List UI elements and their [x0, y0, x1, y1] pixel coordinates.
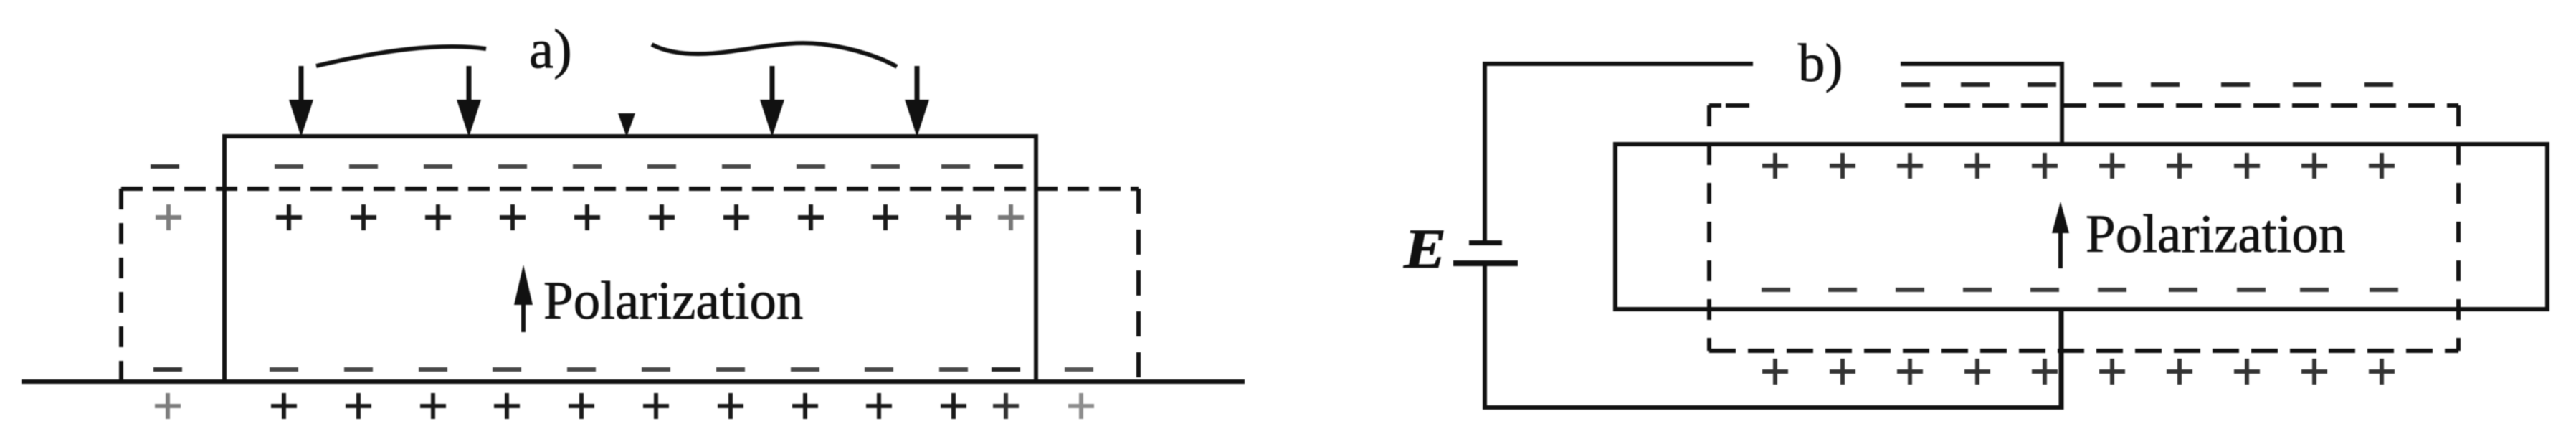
svg-text:b): b)	[1798, 34, 1843, 93]
force arrow F3	[760, 66, 784, 137]
charge row: free plus charges on bottom electrode b)	[1762, 359, 2395, 385]
crystal body b) solid rectangle	[1615, 144, 2547, 309]
wire: battery bottom lead	[1483, 266, 1487, 410]
wire: battery top lead	[1483, 62, 1487, 240]
svg-text:Polarization: Polarization	[2086, 204, 2345, 264]
charge row: top bound plus charges a)	[156, 204, 1024, 230]
wire: top horizontal segment left of label	[1483, 62, 1753, 66]
wire: bottom electrode riser	[2059, 307, 2064, 410]
force arrow F2	[457, 66, 481, 137]
wire: top horizontal segment right of label	[1901, 62, 2064, 66]
wire: top electrode drop	[2060, 62, 2064, 146]
small force arrowhead (center)	[618, 113, 635, 137]
svg-text:a): a)	[529, 18, 572, 80]
charge row: bottom bound plus charges a)	[155, 393, 1094, 419]
charge row: bound plus charges inside b) top	[1762, 153, 2395, 179]
charge row: bottom bound minus charges a)	[153, 367, 1093, 372]
undeformed outline b) dashed rectangle (top edge has gap at label)	[1709, 105, 2458, 351]
charge row: free minus charges on top electrode b)	[1901, 82, 2393, 87]
battery plate short (top)	[1469, 240, 1502, 245]
brace curve right (wavy, over F arrows 3-4)	[652, 43, 897, 67]
ground baseline under a)	[22, 379, 1245, 384]
charge row: top bound minus charges a)	[151, 164, 1023, 169]
crystal body a) solid rectangle (open bottom, sits on baseline)	[224, 136, 1036, 382]
undeformed outline a) dashed rectangle	[121, 189, 1139, 382]
wire: bottom horizontal	[1483, 405, 2063, 410]
battery plate long (bottom)	[1453, 260, 1518, 266]
charge row: bound minus charges inside b) bottom	[1762, 288, 2398, 292]
svg-text:Polarization: Polarization	[543, 271, 803, 331]
svg-text:E: E	[1403, 218, 1446, 280]
polarization arrow a)	[514, 265, 533, 332]
force arrow F4	[905, 66, 929, 137]
polarization arrow b)	[2052, 202, 2069, 268]
force arrow F1	[289, 66, 313, 137]
brace curve left (over F arrows 1-2)	[316, 47, 486, 66]
